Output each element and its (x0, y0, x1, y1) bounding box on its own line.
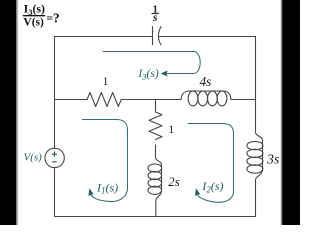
mesh current I3(s) loop arrow (103, 52, 200, 74)
inductor L3 right-side connecting line (262, 140, 264, 169)
left black border bar (0, 0, 16, 225)
wire top-left: top rail from left corner to capacitor (55, 36, 153, 38)
wire left upper: top-left corner down to source V(s) (54, 37, 56, 149)
voltage source V(s) circle (45, 148, 64, 167)
mesh current I2(s) loop arrow (188, 124, 234, 203)
wire right lower: inductor 3s exit down to bottom-right corner (256, 169, 263, 216)
arrowhead of I3(s) (161, 71, 168, 77)
minus sign of source V(s) (52, 161, 57, 162)
svg-text:V(s): V(s) (24, 151, 43, 163)
svg-text:1: 1 (103, 76, 109, 88)
wire middle branch upper: node at middle rail down to resistor R2 (155, 100, 157, 113)
wire right upper: top-right corner down to inductor 3s (255, 37, 257, 133)
inductor L3 value 3s entry from right rail (256, 132, 263, 140)
wire middle rail left: left rail to resistor R1 (55, 99, 88, 101)
inductor L1 value 4s : entry + top line + exit (181, 91, 231, 100)
wire middle branch lower: inductor 2s exit down to bottom rail node (156, 190, 162, 217)
formula I3(s)/V(s) = ? (23, 1, 60, 28)
arrowhead of I1(s) (88, 188, 93, 196)
resistor R1 value 1 (horizontal zigzag) (87, 93, 121, 107)
svg-text:3s: 3s (266, 151, 279, 166)
svg-text:2s: 2s (168, 175, 179, 189)
wire middle branch: resistor R2 to inductor 2s entry (156, 145, 162, 165)
mesh current I1(s) loop arrow (83, 120, 128, 202)
svg-text:I3(s): I3(s) (137, 68, 158, 81)
svg-text:?: ? (53, 11, 60, 26)
inductor L2 loop ellipses (148, 164, 162, 172)
svg-text:I1(s): I1(s) (96, 180, 118, 195)
capacitor C1 value 1/s : left straight plate (152, 27, 154, 45)
inductor L1 loop ellipses (188, 91, 198, 106)
capacitor C1 curved right plate (158, 27, 161, 45)
wire middle rail center: resistor R1 to inductor 4s, passes node at x=155.5 (121, 99, 181, 101)
svg-text:I3(s): I3(s) (24, 1, 45, 16)
svg-text:I2(s): I2(s) (201, 179, 223, 194)
svg-text:V(s): V(s) (23, 16, 44, 28)
inductor L3 loop ellipses (247, 141, 263, 149)
svg-text:4s: 4s (199, 74, 211, 89)
right black border bar (282, 0, 300, 225)
svg-text:s: s (152, 12, 158, 24)
wire middle rail right: inductor 4s to right rail (231, 99, 256, 101)
wire top-right: capacitor to top-right corner (159, 36, 256, 38)
resistor R2 value 1 (vertical zigzag) (149, 112, 162, 140)
inductor L2 value 2s right-side connecting line (161, 165, 163, 190)
wire left lower: source to bottom-left corner (54, 168, 56, 217)
arrowhead of I2(s) (195, 188, 200, 196)
svg-text:1: 1 (168, 124, 174, 136)
wire bottom rail (55, 216, 256, 218)
plus sign of source V(s) (52, 154, 57, 155)
